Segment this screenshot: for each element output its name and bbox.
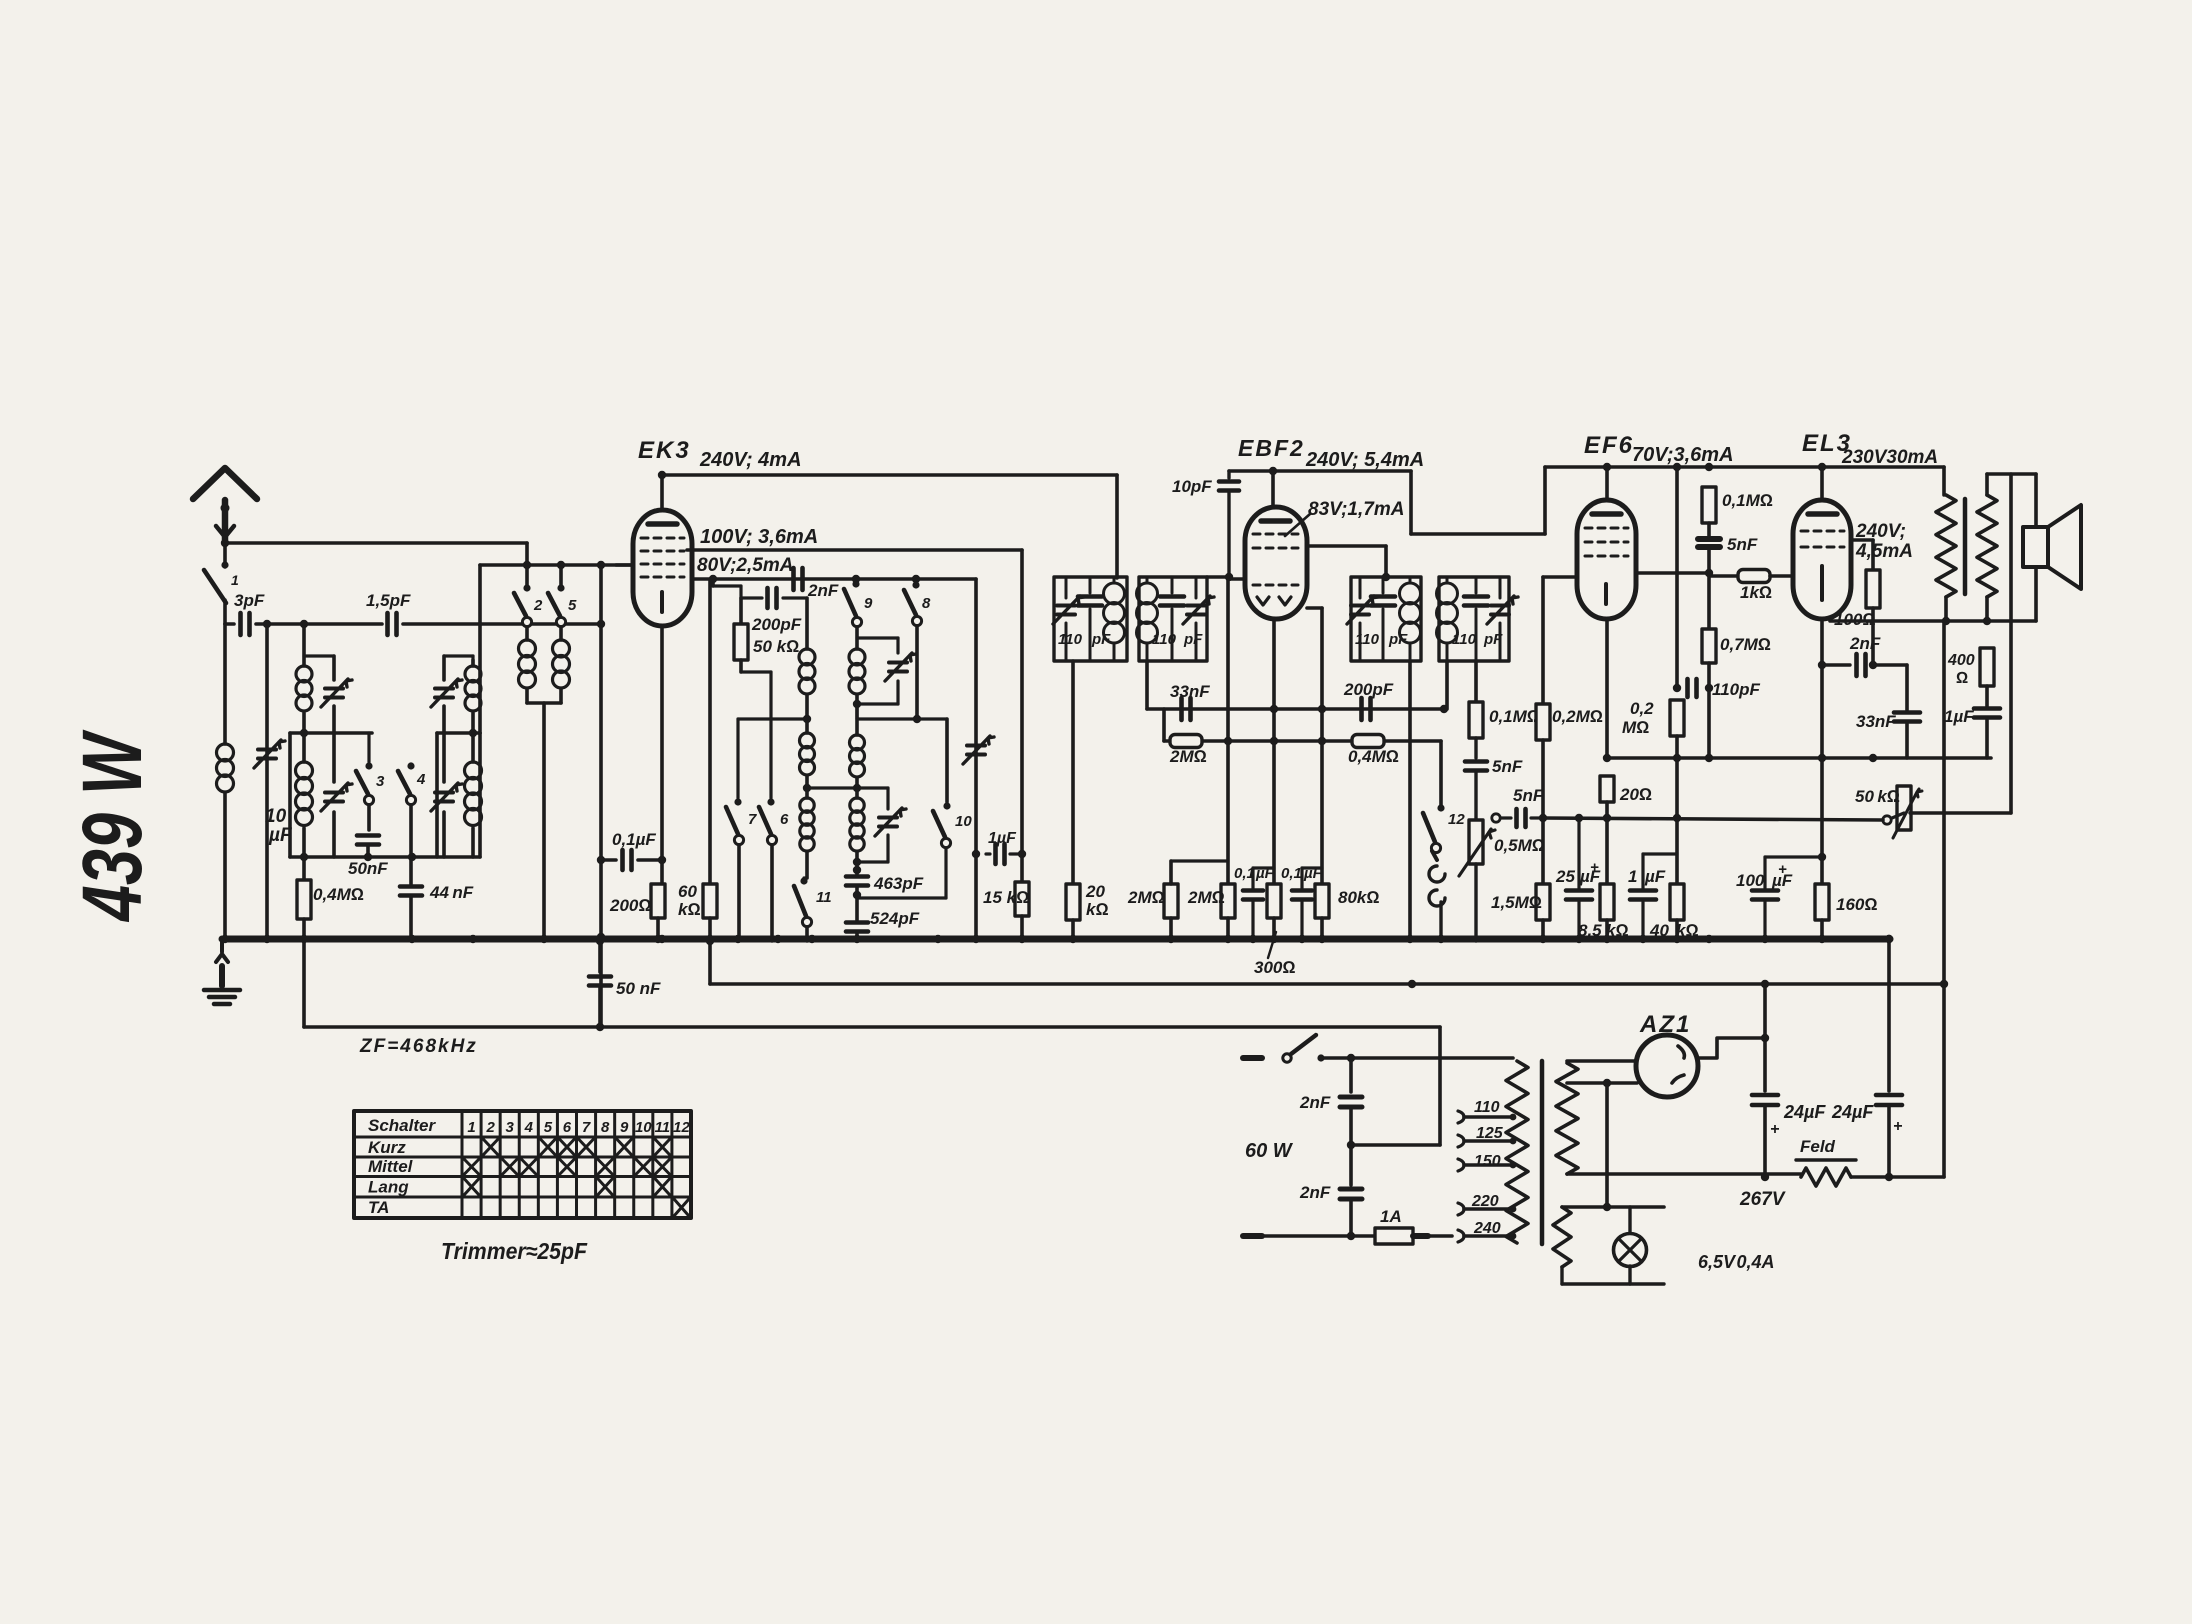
wire 463 to sw10	[857, 848, 946, 898]
wire antenna to cap	[225, 600, 234, 624]
resistor 2M a	[1164, 861, 1228, 941]
wire 100V drop	[1020, 550, 1024, 854]
svg-text:ZF=468kHz: ZF=468kHz	[359, 1036, 478, 1057]
label 2M b	[1187, 888, 1225, 907]
IF2 secondary box	[1439, 577, 1509, 661]
svg-text:100: 100	[1736, 871, 1765, 890]
osc coupling coil right	[553, 627, 570, 703]
rectifier AZ1	[1636, 1035, 1698, 1097]
label 1uF osc	[988, 830, 1017, 847]
label 50 kO	[753, 637, 799, 656]
svg-text:60 W: 60 W	[1245, 1140, 1294, 1162]
potentiometer 50k	[1883, 786, 1922, 838]
svg-text:11: 11	[816, 889, 832, 906]
trimmer T5 lower	[431, 733, 462, 857]
switch 2	[514, 565, 543, 627]
label 100uF	[1736, 861, 1793, 890]
capacitor 2nF el3	[1822, 654, 1907, 676]
chassis line y1027 (ZF)	[304, 937, 1440, 1031]
EK3 top pin	[660, 475, 664, 510]
svg-text:2: 2	[485, 1119, 495, 1136]
label 33nF	[1856, 712, 1896, 731]
trunk crossing dots	[1072, 983, 1074, 985]
supply line 240V	[658, 471, 1117, 479]
label 463pF	[873, 874, 924, 893]
model label 439 W	[65, 729, 159, 923]
EF6 cathode tick	[1604, 584, 1608, 604]
svg-text:12: 12	[673, 1119, 690, 1136]
IF1 secondary trimmer	[1183, 577, 1214, 661]
svg-text:1,5pF: 1,5pF	[366, 591, 411, 610]
capacitor 3pF	[241, 613, 250, 635]
label 60k	[678, 882, 701, 919]
svg-text:80kΩ: 80kΩ	[1338, 888, 1379, 907]
antenna coil L1	[217, 624, 234, 937]
label 0,1M ef6	[1722, 491, 1773, 510]
transformer primary	[1506, 1058, 1528, 1243]
svg-text:125: 125	[1476, 1125, 1504, 1142]
speaker wire bottom	[2035, 567, 2037, 621]
capacitor 2nF m2	[1340, 1145, 1362, 1236]
feedback line y813	[1892, 786, 2011, 818]
switch 8	[904, 581, 931, 625]
EBF2 anode pin	[1307, 546, 1386, 575]
ground drop	[216, 939, 228, 986]
label switch 1	[231, 572, 239, 588]
svg-text:150: 150	[1474, 1153, 1501, 1170]
EK3 grid pin	[616, 563, 633, 567]
svg-text:2nF: 2nF	[807, 581, 839, 600]
EBF2 anode bar	[1261, 518, 1290, 524]
svg-text:4: 4	[524, 1119, 534, 1136]
capacitor 1uF osc	[986, 844, 1026, 864]
svg-text:7: 7	[582, 1119, 591, 1136]
svg-text:6: 6	[563, 1119, 572, 1136]
svg-text:2: 2	[533, 597, 543, 614]
osc bracket left	[738, 672, 807, 798]
OT secondary top line	[1987, 472, 2036, 476]
label 300	[1254, 932, 1295, 977]
bus end drop x1889	[1885, 935, 1893, 1091]
IF1 primary cap 110pF	[1078, 577, 1102, 661]
svg-text:Lang: Lang	[368, 1178, 409, 1197]
lamp bottom line	[1562, 1266, 1664, 1284]
svg-text:0,1: 0,1	[1281, 865, 1302, 882]
label 0,7M	[1720, 635, 1771, 654]
mains mid junction	[1347, 1027, 1440, 1149]
label 230V30mA	[1841, 447, 1938, 468]
tap labels	[1471, 1099, 1504, 1237]
label 0,1M det	[1489, 707, 1540, 726]
capacitor 0,1uF b	[1292, 868, 1322, 941]
resistor 160	[1815, 884, 1829, 941]
switch 10	[933, 719, 972, 848]
capacitor 463pF	[846, 870, 868, 899]
wire antenna down	[223, 537, 227, 567]
antenna coil L3 lower	[296, 733, 313, 857]
svg-text:1: 1	[1628, 867, 1637, 886]
svg-text:110: 110	[1058, 631, 1083, 648]
svg-text:Mittel: Mittel	[368, 1157, 414, 1176]
EBF2 diode plates	[1257, 597, 1291, 605]
svg-text:+: +	[1590, 859, 1599, 876]
IF1 secondary cap 110pF	[1160, 577, 1184, 661]
coil box1 left	[288, 733, 292, 857]
svg-text:10: 10	[265, 806, 287, 827]
speaker top line	[1942, 467, 1946, 495]
switch 4	[398, 762, 426, 804]
label 110pF ef6	[1712, 680, 1760, 699]
osc trimmer upper	[857, 638, 916, 704]
svg-text:4: 4	[416, 771, 426, 788]
svg-text:2MΩ: 2MΩ	[1187, 888, 1225, 907]
IF1 sec top wire	[1207, 575, 1228, 579]
capacitor 24uF b	[1876, 1095, 1902, 1177]
label 80k	[1338, 888, 1379, 907]
trimmer on antenna line	[254, 624, 285, 937]
ground bus	[222, 936, 1890, 943]
antenna coil L2 upper	[296, 666, 312, 733]
IF2 primary box	[1351, 577, 1421, 661]
svg-text:267V: 267V	[1739, 1189, 1786, 1210]
svg-text:Kurz: Kurz	[368, 1138, 406, 1157]
coil box2 upper trimmer	[431, 656, 473, 733]
svg-text:0,1MΩ: 0,1MΩ	[1489, 707, 1540, 726]
IF1 top tie	[1116, 576, 1118, 578]
EF6 top pin	[1603, 463, 1611, 500]
svg-text:pF: pF	[1388, 631, 1408, 648]
capacitor 25uF	[1566, 814, 1592, 941]
svg-text:5: 5	[544, 1119, 553, 1136]
TA jack	[1429, 851, 1445, 941]
IF2 secondary trimmer	[1487, 577, 1518, 661]
svg-text:33nF: 33nF	[1856, 712, 1896, 731]
svg-text:pF: pF	[1091, 631, 1111, 648]
label 2M avc	[1169, 747, 1207, 766]
svg-text:6: 6	[780, 811, 789, 828]
wire 240V drop to IF1	[1115, 475, 1119, 578]
svg-text:Trimmer≈25pF: Trimmer≈25pF	[441, 1238, 588, 1264]
svg-text:3: 3	[506, 1119, 515, 1136]
svg-text:EK3: EK3	[638, 437, 691, 464]
resistor 100	[1866, 570, 1880, 669]
label Trimmer 25pF	[441, 1238, 588, 1264]
IF1 primary box	[1054, 577, 1127, 661]
svg-text:400: 400	[1947, 652, 1975, 669]
svg-text:0,4MΩ: 0,4MΩ	[1348, 747, 1399, 766]
IF2 primary anode dot	[1382, 573, 1390, 581]
wiper cap 5nF	[1492, 809, 1547, 827]
label 0,2M det	[1552, 707, 1603, 726]
wire 1.5pF to osc grid line	[403, 620, 605, 628]
IF1 sec drop	[1145, 661, 1149, 709]
label 2nF osc	[807, 581, 839, 600]
transformer core	[1540, 1061, 1545, 1244]
coil box2: upper coil	[465, 660, 481, 733]
tube EBF2	[1245, 507, 1307, 619]
label 200pF avc	[1343, 680, 1394, 699]
IF2 secondary coil	[1437, 577, 1458, 661]
resistor 50k osc	[734, 598, 771, 672]
field coil Feld	[1567, 1160, 1856, 1186]
label 0,5M	[1494, 836, 1545, 855]
capacitor 33nF	[1894, 713, 1920, 759]
capacitor 44nF	[400, 887, 422, 938]
capacitor 100uF	[1752, 857, 1822, 941]
fb wire x2011	[2009, 474, 2013, 813]
svg-text:1A: 1A	[1380, 1207, 1402, 1226]
svg-text:439 W: 439 W	[65, 729, 159, 923]
capacitor 1uF out	[1974, 709, 2000, 759]
switch 7	[726, 798, 757, 941]
resistor 0,7M	[1702, 573, 1716, 758]
267V line	[1561, 1174, 1889, 1177]
capacitor 200pF avc	[1362, 698, 1371, 720]
EF6 grid wire	[1543, 575, 1577, 579]
resistor 0,1M det	[1469, 702, 1483, 738]
label 1uF out	[1944, 707, 1974, 726]
capacitor 33nF	[1182, 698, 1191, 720]
EF6 cathode pin	[1603, 619, 1611, 762]
AF takeoff line y818	[1543, 814, 1883, 822]
EL3 screen pin	[1851, 540, 1873, 570]
label 160	[1836, 895, 1877, 914]
feedback drop x1907	[1905, 665, 1909, 710]
svg-text:110pF: 110pF	[1712, 680, 1760, 699]
osc line y719 right	[857, 704, 947, 723]
svg-text:50 kΩ: 50 kΩ	[753, 637, 799, 656]
svg-text:240: 240	[1473, 1220, 1501, 1237]
EK3 cathode pin	[660, 626, 664, 884]
svg-text:5nF: 5nF	[1513, 786, 1544, 805]
label 24uF a	[1770, 1102, 1826, 1138]
tube EK3	[633, 510, 692, 626]
label 6,5V 0,4A	[1698, 1252, 1775, 1272]
svg-text:20: 20	[1085, 882, 1105, 901]
svg-text:160Ω: 160Ω	[1836, 895, 1877, 914]
transformer taps	[1458, 1111, 1516, 1242]
label 0,2M ef6	[1622, 699, 1654, 737]
fuse 1A	[1375, 1228, 1413, 1244]
switch 9	[844, 580, 873, 626]
svg-text:Ω: Ω	[1956, 670, 1968, 687]
wire node to 1.5pF	[304, 622, 382, 626]
capacitor 5nF det	[1465, 738, 1487, 820]
label 8,5k	[1578, 921, 1629, 940]
svg-text:7: 7	[748, 811, 757, 828]
B+ drop x1944	[1942, 621, 1946, 1177]
resistor 2M b	[1221, 884, 1235, 941]
coil box1 bottom	[290, 853, 480, 861]
EL3 anode bar	[1808, 511, 1837, 517]
resistor 80k	[1315, 884, 1329, 941]
svg-text:2MΩ: 2MΩ	[1127, 888, 1165, 907]
label 5nF det	[1492, 757, 1523, 776]
svg-text:0,1MΩ: 0,1MΩ	[1722, 491, 1773, 510]
trimmer padder	[963, 736, 994, 764]
label 524pF	[870, 909, 920, 928]
label 2nF m1	[1299, 1093, 1331, 1112]
svg-text:pF: pF	[1183, 631, 1203, 648]
switch table column numbers	[467, 1119, 690, 1136]
osc feedback coil A	[799, 598, 815, 723]
coil L5 lower	[465, 733, 482, 857]
speaker	[2023, 505, 2081, 589]
wire anode to 1k	[1708, 572, 1710, 578]
svg-text:24µF: 24µF	[1783, 1102, 1826, 1122]
trimmer T2 upper	[304, 656, 352, 733]
label 83V 1,7mA	[1308, 499, 1404, 520]
label 1k	[1740, 583, 1772, 602]
svg-text:EF6: EF6	[1584, 432, 1634, 459]
switch 12	[1423, 804, 1465, 852]
lamp feed line	[1562, 1083, 1664, 1211]
resistor 1k	[1709, 570, 1793, 583]
label 0,1uF	[612, 830, 656, 849]
IF2 primary cap 110pF	[1371, 577, 1395, 661]
svg-text:5: 5	[568, 597, 577, 614]
svg-text:5nF: 5nF	[1727, 535, 1758, 554]
svg-text:0,2: 0,2	[1630, 699, 1654, 718]
mains switch	[1283, 1035, 1325, 1062]
osc coil C2	[800, 788, 814, 878]
fuse out blob	[1413, 1233, 1452, 1239]
wire switch line y565	[480, 561, 633, 569]
label 44nF	[429, 883, 474, 902]
capacitor 50nF to chassis	[589, 937, 611, 1027]
svg-text:Schalter: Schalter	[368, 1116, 436, 1135]
AZ1 output hook	[1697, 1034, 1769, 1058]
label 110pF IF2p	[1355, 631, 1408, 648]
pointer 83V	[1285, 514, 1310, 536]
label 3pF	[234, 591, 265, 610]
label 70V 3,6mA	[1632, 444, 1734, 466]
svg-text:100V; 3,6mA: 100V; 3,6mA	[700, 526, 818, 548]
svg-text:110: 110	[1452, 631, 1477, 648]
label 100V 3,6mA	[700, 526, 818, 548]
switch 5	[548, 565, 577, 627]
EL3 cathode tick	[1820, 566, 1824, 600]
label 25uF	[1555, 859, 1601, 886]
EBF2 grid leak drop	[1226, 577, 1230, 884]
tube EF6	[1577, 500, 1636, 619]
svg-text:1,5MΩ: 1,5MΩ	[1491, 893, 1542, 912]
wire to switch 12	[1439, 741, 1443, 806]
resistor 300	[1267, 884, 1281, 941]
label 100	[1834, 610, 1875, 629]
svg-text:80V;2,5mA: 80V;2,5mA	[697, 555, 793, 576]
svg-text:2nF: 2nF	[1849, 634, 1881, 653]
switch 1	[204, 561, 229, 603]
svg-text:220: 220	[1471, 1193, 1499, 1210]
resistor 0,4M	[297, 857, 311, 937]
ground symbol	[204, 990, 240, 1004]
EL3 top pin	[1820, 467, 1824, 500]
svg-text:110: 110	[1355, 631, 1380, 648]
grid2 chain x1677	[1673, 467, 1681, 692]
svg-text:+: +	[1893, 1118, 1902, 1135]
label 1uF ef6	[1628, 867, 1666, 886]
wire sw3 to 50nF	[367, 805, 371, 830]
svg-text:10: 10	[635, 1119, 652, 1136]
mains wire top	[1321, 1054, 1513, 1062]
OT primary	[1936, 495, 1956, 621]
label 50nF	[348, 859, 388, 878]
resistor 20	[1600, 758, 1614, 884]
label 2M a	[1127, 888, 1165, 907]
svg-text:+: +	[1770, 1121, 1779, 1138]
label 400	[1947, 652, 1975, 687]
anode line y621	[1830, 617, 2036, 625]
OT secondary	[1977, 474, 1997, 621]
svg-text:230V30mA: 230V30mA	[1841, 447, 1938, 468]
capacitor 0,1uF a	[1243, 868, 1274, 941]
osc coil C1	[800, 719, 815, 792]
EL3 grid dashes	[1801, 531, 1844, 547]
supply line C y467	[1545, 463, 1944, 471]
heater winding	[1553, 1207, 1571, 1267]
osc coil D2	[850, 788, 864, 874]
EBF2 diode pin right	[1307, 608, 1326, 884]
capacitor 2nF m1	[1340, 1058, 1362, 1145]
resistor 60k	[703, 579, 717, 945]
osc grid line x601	[597, 565, 605, 1027]
label 0,4M	[313, 885, 364, 904]
svg-text:0,4MΩ: 0,4MΩ	[313, 885, 364, 904]
svg-text:µF: µF	[1644, 867, 1666, 886]
svg-text:+: +	[1778, 861, 1787, 878]
label 240V 5,4mA	[1305, 449, 1424, 471]
IF2 sec drop	[1445, 661, 1449, 709]
svg-text:110: 110	[1474, 1099, 1500, 1116]
resistor 200	[651, 884, 665, 937]
label 1A	[1380, 1207, 1402, 1226]
IF1 secondary box	[1139, 577, 1207, 661]
OT core	[1963, 499, 1968, 594]
svg-text:9: 9	[620, 1119, 629, 1136]
wire sw8 down	[915, 626, 919, 719]
EK3 screen line	[692, 575, 976, 583]
svg-text:200pF: 200pF	[1343, 680, 1394, 699]
svg-text:EBF2: EBF2	[1238, 435, 1305, 461]
svg-text:300Ω: 300Ω	[1254, 958, 1295, 977]
wire 3pF to node	[256, 620, 308, 628]
rectifier output drop	[1763, 984, 1767, 1091]
osc line	[713, 579, 741, 598]
switch table grid	[354, 1111, 691, 1218]
label 50k	[1855, 787, 1900, 806]
svg-text:0,5MΩ: 0,5MΩ	[1494, 836, 1545, 855]
svg-text:kΩ: kΩ	[1086, 900, 1109, 919]
label 20	[1619, 785, 1652, 804]
svg-text:2nF: 2nF	[1299, 1093, 1331, 1112]
wire x304 down	[302, 624, 306, 666]
capacitor 24uF a	[1752, 1095, 1778, 1181]
antenna	[193, 468, 257, 540]
svg-text:50nF: 50nF	[348, 859, 388, 878]
svg-text:25: 25	[1555, 867, 1575, 886]
mains terminal N	[1243, 1233, 1262, 1239]
EBF2 top pin	[1269, 467, 1277, 507]
IF2 primary drop	[1408, 661, 1412, 941]
resistor 0,1M ef6	[1702, 487, 1716, 536]
capacitor 200pF	[741, 588, 807, 608]
label 5nF sg	[1727, 535, 1758, 554]
resistor 40k	[1670, 758, 1684, 941]
EBF2 cathode pin	[1270, 619, 1278, 884]
label EF6	[1584, 432, 1634, 459]
capacitor 524pF	[846, 895, 868, 941]
